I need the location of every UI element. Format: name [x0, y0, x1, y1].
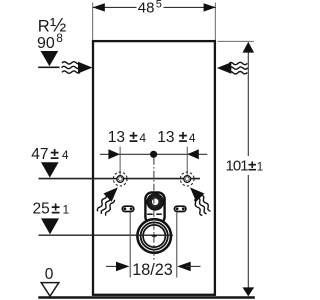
flush pipe housing (capsule) [145, 192, 164, 223]
module outline [93, 41, 215, 295]
supply nut ring [149, 196, 161, 208]
drain outlet middle ring [141, 222, 168, 249]
anchor oval right [174, 206, 186, 211]
water supply arrow to right connection [186, 183, 204, 201]
arrowhead 18/23 left (pointing right) [116, 262, 130, 272]
extension line 18/23 left [129, 213, 131, 278]
arrowhead right 48.5 [204, 3, 216, 11]
extension line right connection [186, 147, 188, 177]
anchor oval left [122, 206, 134, 211]
dimension line 18/23 right tail [186, 265, 201, 267]
dimension 48.5 extension line right [214, 3, 216, 41]
arrowhead left 48.5 [93, 3, 105, 11]
clamp dash right [156, 213, 162, 215]
dimension 101 extension line top [218, 40, 255, 42]
extension line 18/23 right [176, 213, 178, 278]
dimension line 48.5 [93, 6, 137, 8]
center node dot [150, 151, 157, 158]
arrowhead 18/23 right (pointing left) [177, 262, 191, 272]
water tap triangle R1/2 [41, 51, 59, 66]
dimension line 18/23 left tail [106, 265, 121, 267]
drain outlet outer ring [137, 219, 171, 253]
svg-text:47±4: 47±4 [31, 146, 69, 163]
level marker triangle 0 (floor, open) [41, 283, 59, 297]
floor line [38, 296, 255, 299]
arrowhead 13 left (pointing right) [108, 149, 120, 159]
supply nut inner [151, 198, 159, 206]
supply nut outer [147, 194, 163, 210]
drain center mark [152, 235, 157, 237]
arrowhead 13 right (pointing left) [187, 149, 199, 159]
dimension line 13/13 [100, 153, 207, 155]
arrowhead down 101 [243, 287, 255, 296]
dimension line 101 vertical [247, 42, 249, 156]
water supply arrow right [217, 62, 248, 74]
water connection right (dashed circle) [180, 172, 194, 186]
level line 47 [39, 178, 201, 180]
water supply waves left connection [96, 195, 115, 217]
drain outlet inner ring [143, 225, 165, 247]
water supply waves right connection [193, 195, 212, 217]
arrowhead up 101 [243, 42, 255, 53]
water supply arrow left [62, 62, 93, 74]
svg-text:0: 0 [45, 266, 54, 283]
extension line left connection [119, 147, 121, 177]
vertical centerline [153, 158, 155, 261]
level line 25 [39, 234, 174, 236]
water supply arrow to left connection [103, 183, 121, 201]
svg-text:25±1: 25±1 [33, 201, 70, 218]
svg-text:18/23: 18/23 [132, 261, 173, 279]
level marker triangle 25 [41, 218, 59, 234]
tap base line [38, 66, 59, 68]
clamp dash left [147, 213, 153, 215]
dimension 48.5 extension line left [92, 3, 94, 41]
level marker triangle 47 [41, 162, 59, 177]
water connection left (dashed circle) [113, 172, 127, 186]
